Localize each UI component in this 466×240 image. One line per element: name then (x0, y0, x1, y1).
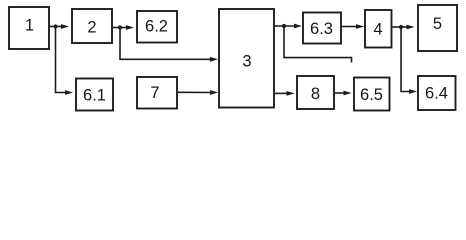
wire 4 to 5 (393, 26, 409, 28)
wire 3 to 6.3 (275, 25, 295, 27)
arrowhead into block 6.5 (344, 91, 352, 96)
svg-text:2: 2 (87, 19, 96, 37)
arrowhead into block 2 (61, 24, 69, 29)
block 6.3 (303, 13, 341, 44)
svg-text:3: 3 (242, 53, 251, 71)
block 1 (9, 7, 49, 49)
svg-text:5: 5 (433, 15, 442, 33)
arrowhead into block 6.3 (294, 24, 302, 29)
wire junction A down to 6.1 (56, 27, 69, 93)
arrowhead into block 4 (356, 24, 364, 29)
arrowhead into block 3 upper (210, 57, 218, 62)
block 6.1 (76, 79, 113, 111)
wire 6.3 to 4 (342, 26, 357, 28)
block 6.5 (354, 78, 390, 111)
wire junction D down to 6.4 (401, 27, 410, 92)
wire 1 to 2 (50, 26, 62, 28)
arrowhead into block 5 (407, 25, 415, 30)
block 6.4 (418, 76, 456, 110)
svg-text:8: 8 (311, 85, 320, 103)
block 2 (72, 9, 112, 43)
junction node D (399, 25, 403, 29)
svg-text:4: 4 (373, 21, 382, 39)
arrowhead into block 3 lower (210, 90, 218, 95)
svg-text:6.5: 6.5 (360, 86, 383, 104)
svg-text:6.4: 6.4 (425, 85, 448, 103)
block 6.2 (137, 11, 177, 43)
svg-text:6.3: 6.3 (310, 20, 333, 38)
junction node B (118, 25, 122, 29)
block 4 (365, 10, 392, 48)
svg-text:6.2: 6.2 (145, 18, 168, 36)
wire 7 to 3 (178, 91, 211, 93)
svg-text:6.1: 6.1 (83, 87, 106, 105)
junction node C (282, 24, 286, 28)
wire junction C down right and into top of 6.5 (284, 26, 352, 63)
wire junction B down and right to 3 (120, 28, 211, 60)
wire 3 to 8 (275, 92, 287, 94)
svg-text:1: 1 (25, 17, 34, 35)
arrowhead into block 6.1 (65, 90, 73, 95)
arrowhead into block 6.4 (409, 89, 417, 94)
block 3 (219, 9, 274, 108)
block 8 (297, 76, 334, 109)
arrowhead into block 6.2 (126, 25, 134, 30)
block 7 (137, 77, 177, 109)
junction node A (53, 24, 57, 28)
wire 2 to 6.2 (113, 27, 127, 29)
wire 8 to 6.5 (335, 92, 346, 94)
block 5 (418, 5, 457, 51)
arrowhead into block 8 (287, 91, 295, 96)
svg-text:7: 7 (150, 84, 159, 102)
